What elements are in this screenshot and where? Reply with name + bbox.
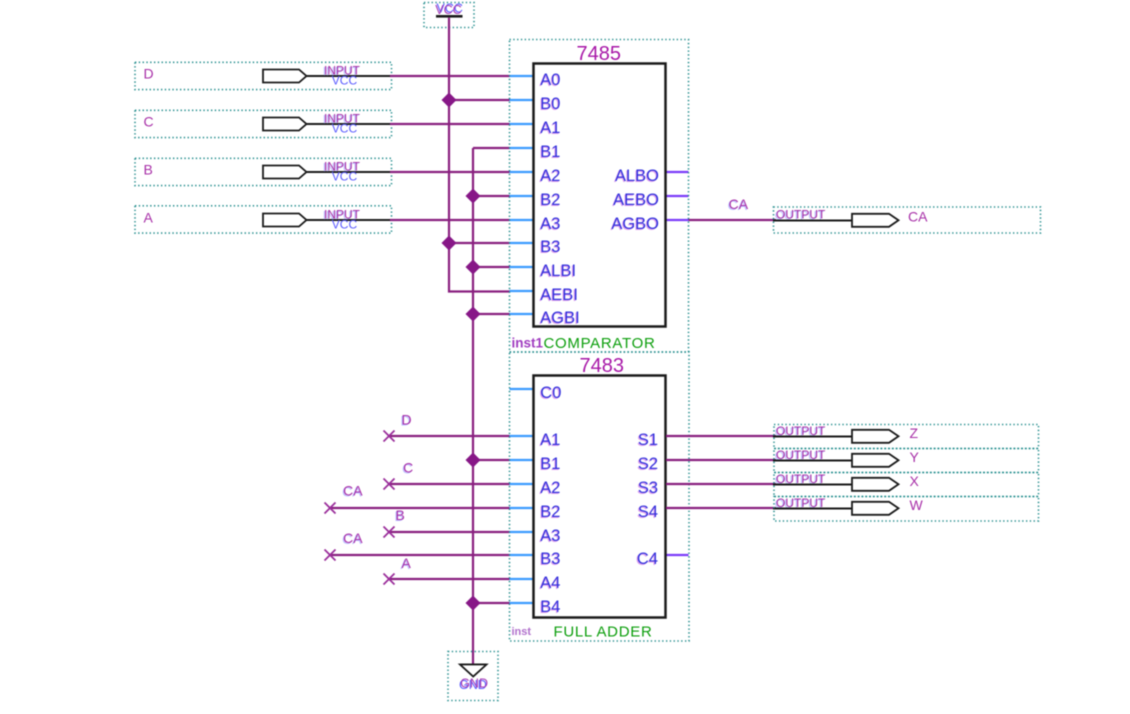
wire net B to A3 7483	[389, 531, 510, 533]
svg-text:A: A	[144, 209, 154, 225]
wire net C to A2 7483	[389, 483, 510, 485]
pin stub A1	[510, 123, 535, 125]
svg-text:C0: C0	[540, 384, 561, 402]
wire S2 to Y	[666, 459, 776, 461]
svg-text:VCC: VCC	[332, 169, 358, 183]
pin stub B3	[510, 242, 535, 244]
wire AGBI from bus	[473, 313, 510, 315]
pin stub A0	[510, 75, 535, 77]
wire GND vertical bus x=473	[472, 148, 474, 665]
svg-text:D: D	[402, 412, 412, 428]
wire B1 7483 from bus	[473, 459, 510, 461]
input pin B	[135, 158, 392, 185]
wire B to A2	[390, 171, 510, 173]
svg-text:B4: B4	[540, 598, 560, 616]
full adder U-7483	[510, 352, 690, 641]
junction B0	[442, 93, 457, 108]
svg-text:AEBI: AEBI	[540, 286, 578, 304]
power VCC	[424, 2, 474, 28]
pin stub A3	[510, 219, 535, 221]
pin stub B1	[510, 459, 535, 461]
wire S3 to X	[666, 483, 776, 485]
svg-text:OUTPUT: OUTPUT	[776, 208, 826, 222]
pin stub AGBI	[510, 313, 535, 315]
input pin A	[135, 206, 392, 233]
svg-text:Z: Z	[910, 425, 919, 441]
selection box U-7485	[510, 40, 689, 353]
svg-text:B3: B3	[540, 550, 560, 568]
wire net CA to B2 7483	[330, 507, 510, 509]
comparator U-7485	[510, 40, 689, 353]
svg-text:CA: CA	[729, 196, 749, 212]
wire S4 to W	[666, 507, 776, 509]
pin stub A4	[510, 578, 535, 580]
pin stub ALBI	[510, 266, 535, 268]
wire B3 from bus	[449, 242, 510, 244]
pin stub A2	[510, 483, 535, 485]
svg-text:VCC: VCC	[332, 217, 358, 231]
svg-text:B3: B3	[540, 238, 560, 256]
svg-text:B: B	[144, 161, 153, 177]
net label D	[400, 412, 411, 429]
wire S1 to Z	[666, 435, 776, 437]
svg-text:A: A	[402, 555, 412, 571]
svg-text:inst1: inst1	[512, 335, 544, 350]
input pin C	[135, 110, 392, 137]
svg-text:A0: A0	[540, 71, 560, 89]
wire ALBI from bus	[473, 266, 510, 268]
svg-text:7483: 7483	[580, 355, 625, 377]
svg-text:inst: inst	[512, 626, 532, 638]
svg-text:VCC: VCC	[435, 3, 461, 17]
output pin CA	[773, 207, 1041, 233]
net label B	[394, 507, 404, 524]
svg-text:A3: A3	[540, 215, 560, 233]
output pin W	[773, 496, 1039, 521]
svg-text:A1: A1	[540, 119, 560, 137]
net label C	[402, 460, 413, 477]
svg-text:C4: C4	[637, 550, 658, 568]
svg-text:A4: A4	[540, 574, 560, 592]
pin stub AGBO	[666, 219, 689, 221]
svg-text:GND: GND	[460, 677, 488, 691]
svg-text:S4: S4	[638, 503, 658, 521]
output pin X	[773, 472, 1039, 497]
svg-text:ALBI: ALBI	[540, 262, 576, 280]
svg-text:CA: CA	[908, 209, 928, 225]
wire B1 from bus	[473, 147, 510, 149]
power GND	[448, 652, 498, 701]
svg-text:X: X	[910, 473, 920, 489]
pin stub B1	[510, 147, 535, 149]
dangling end x A	[384, 574, 395, 585]
svg-text:CA: CA	[343, 483, 363, 499]
pin stub B4	[510, 602, 535, 604]
pin stub C0	[510, 388, 535, 390]
dangling end x CA1	[325, 503, 336, 514]
wire B2 from bus	[473, 195, 510, 197]
svg-text:S3: S3	[638, 479, 658, 497]
svg-text:B: B	[396, 507, 405, 523]
wire net A to A4 7483	[389, 578, 510, 580]
svg-text:S1: S1	[638, 431, 658, 449]
svg-text:A2: A2	[540, 479, 560, 497]
pin stub B3	[510, 554, 535, 556]
pin stub ALBO	[666, 171, 689, 173]
svg-text:C: C	[144, 113, 154, 129]
svg-text:C: C	[403, 460, 413, 476]
svg-text:B0: B0	[540, 95, 560, 113]
junction B2	[466, 189, 481, 204]
junction B1 7483	[466, 453, 481, 468]
junction B3	[442, 236, 457, 251]
selection box U-7483	[510, 352, 690, 641]
svg-text:B1: B1	[540, 143, 560, 161]
pin stub A2	[510, 171, 535, 173]
net label A	[400, 555, 411, 572]
svg-text:B1: B1	[540, 455, 560, 473]
wire A to A3	[390, 219, 510, 221]
net label CA2	[342, 530, 363, 547]
pin stub B0	[510, 99, 535, 101]
junction AGBI	[466, 307, 481, 322]
svg-text:W: W	[910, 497, 924, 513]
output pin Y	[773, 448, 1039, 473]
junction B4 7483	[466, 596, 481, 611]
net label CA	[728, 196, 749, 213]
svg-text:VCC: VCC	[332, 121, 358, 135]
dangling end x CA2	[325, 550, 336, 561]
wire B4 7483 from bus	[473, 602, 510, 604]
wire net CA to B3 7483	[330, 554, 510, 556]
body U-7485	[534, 64, 666, 327]
svg-text:AEBO: AEBO	[613, 191, 659, 209]
svg-text:Y: Y	[910, 449, 920, 465]
dangling end x D	[384, 431, 395, 442]
junction ALBI	[466, 260, 481, 275]
input pin D	[135, 62, 392, 89]
svg-text:B2: B2	[540, 191, 560, 209]
svg-text:B2: B2	[540, 503, 560, 521]
svg-text:COMPARATOR: COMPARATOR	[544, 335, 656, 352]
svg-text:VCC: VCC	[332, 73, 358, 87]
pin stub AEBI	[510, 290, 535, 292]
pin stub B2	[510, 507, 535, 509]
wire B0 from bus	[449, 99, 510, 101]
svg-text:S2: S2	[638, 455, 658, 473]
body U-7483	[534, 376, 666, 618]
svg-text:A1: A1	[540, 431, 560, 449]
wire VCC vertical bus x=449	[449, 18, 510, 292]
pin stub AEBO	[666, 195, 689, 197]
wire net D to A1 7483	[389, 435, 510, 437]
dangling end x C	[384, 479, 395, 490]
svg-text:D: D	[144, 65, 154, 81]
pin stub A3	[510, 531, 535, 533]
dangling end x B	[384, 527, 395, 538]
pin stub B2	[510, 195, 535, 197]
wire D to A0	[390, 75, 510, 77]
svg-text:ALBO: ALBO	[615, 167, 659, 185]
svg-text:A2: A2	[540, 167, 560, 185]
svg-text:CA: CA	[343, 530, 363, 546]
pin stub C4	[666, 554, 689, 556]
output pin Z	[773, 424, 1039, 449]
wire AGBO to CA output	[689, 219, 777, 221]
svg-text:7485: 7485	[577, 43, 622, 65]
pin stub A1	[510, 435, 535, 437]
svg-text:A3: A3	[540, 527, 560, 545]
svg-text:AGBO: AGBO	[611, 215, 659, 233]
svg-text:AGBI: AGBI	[540, 309, 579, 327]
wire C to A1	[390, 123, 510, 125]
svg-text:FULL ADDER: FULL ADDER	[554, 624, 653, 641]
net label CA1	[342, 483, 363, 500]
